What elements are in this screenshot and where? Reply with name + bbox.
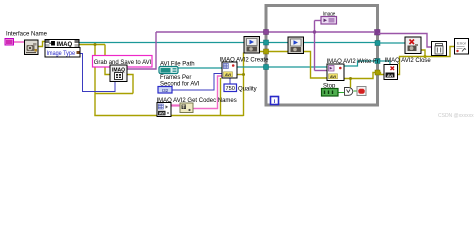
wire: error wire setup to grab inside loop [260,51,289,53]
tunnel: olive error in [264,49,269,54]
terminal: loop iteration i [271,97,279,106]
while loop [266,6,378,106]
wire: error bottom run [94,115,243,117]
vi: IMAQ Close icon [405,37,421,54]
node: olive junction at x95 [94,43,97,46]
node: purple wire junction dot [313,30,316,33]
wire: error wire from IMAQ node going right and down [79,44,105,46]
svg-text:AVI: AVI [225,73,231,77]
vi: IMAQ Grab icon (inside loop) [288,37,304,54]
wire: error riser into AVI2 Create bottom [220,78,222,116]
wire: error out of write frame to right border [344,73,377,79]
vi: IMAQ Create icon [110,65,127,82]
control: AVI File Path terminal [159,67,178,74]
wire: error wire IMAQ Init to IMAQ node [38,42,45,47]
node: Image Type terminal row [45,48,80,58]
wire: purple image riser inside loop [314,21,316,71]
wire: teal session out of loop to IMAQ Close [379,42,406,44]
wire: blue Image Type wire down and into IMAQ Create icon bottom [80,54,115,92]
tunnel: teal session in [264,40,269,45]
node: IMAQ Create expanded node header "IMAQ" [45,40,79,49]
node: olive junction at condition feed [349,77,352,80]
wire: blue FPS wire to AVI2 Create [172,74,222,91]
wire: error out of IMAQ Create icon down [127,75,133,94]
wire: error riser x95 down to bottom run [94,45,96,116]
tunnel: teal session out [375,41,380,46]
wire: or gate to condition terminal [354,90,358,92]
wire: green stop wire [338,92,344,94]
wire: error wire grab out down to write frame [304,52,328,79]
svg-text:AVI: AVI [330,75,336,79]
label: Grab and Save to AVI free label [93,56,153,68]
wire: purple stub to Image indicator [315,20,322,22]
wire: teal AVI refnum out of write frame to right border [344,61,390,66]
wire: teal path wire AVI File Path to AVI2 Create [178,67,222,69]
svg-text:Error: Error [457,41,467,46]
tunnel: teal AVI refnum out [375,59,380,64]
tunnel: purple image in [264,30,269,35]
wire: error drop into Or gate [350,79,352,88]
wire: error riser B up to Grab Setup [243,53,245,117]
vi: IMAQ AVI2 Create icon [222,62,237,78]
control: FPS I32 terminal [158,87,172,94]
tunnel: olive error out [375,70,380,75]
wire: purple stub into Write Frame [315,70,328,72]
wire: error short run y93.5 [95,93,133,95]
function: Or gate [345,88,353,96]
vi: IMAQ Dispose trash icon [432,42,447,56]
svg-text:AVI: AVI [387,74,393,78]
function: Index Array [180,103,193,113]
terminal: Interface Name string control [5,39,14,46]
indicator: Image terminal [321,17,337,25]
svg-text:Interface Name: Interface Name [6,32,48,38]
svg-text:CSDN @xxxxxx: CSDN @xxxxxx [438,113,474,119]
svg-text:AVI: AVI [159,112,165,116]
wire: teal AVI refnum wire AVI2 Create into loop to Write Frame [237,66,327,68]
wire: error out of AVI2 Close up and right [398,47,455,75]
wire: pink codec array wire codec VI to Index Array [171,104,180,106]
node: olive junction right of loop [424,55,427,58]
tunnel: teal AVI refnum in [264,65,269,70]
wire: purple image out of loop to IMAQ Dispose [379,34,432,48]
vi: IMAQ AVI2 Get Codec Names icon [157,103,171,117]
node: olive junction riser B [242,73,245,76]
wire: error out of loop to AVI2 Close [379,73,385,75]
wire: pink string wire from Interface Name terminal to IMAQ Init [14,41,26,43]
wire: purple image wire top run into while loop [156,31,374,33]
wire: teal IMAQ session wire across diagram into loop [79,42,375,44]
vi: IMAQ Init camera icon [25,40,39,55]
svg-text:IMAQ AVI2 Close: IMAQ AVI2 Close [385,58,432,64]
wire: purple image wire from IMAQ Create to loop [127,32,156,69]
vi: IMAQ AVI2 Write Frame icon [327,64,344,81]
vi: IMAQ AVI2 Close icon [384,65,398,80]
svg-text:Quality: Quality [238,87,257,93]
vi: IMAQ Grab Setup icon [244,37,260,54]
wire: error stub AVI2 Create out to riser B [237,74,244,76]
terminal: loop condition (stop if true) [357,87,366,96]
svg-text:Frames Per: Frames Per [160,75,191,81]
svg-text:750: 750 [226,86,235,92]
svg-text:I32: I32 [162,88,169,93]
wire: pink codec string wire Index Array to AVI2 Create [193,76,222,109]
tunnel: purple image out (fat dot) [375,30,381,36]
control: Stop boolean terminal [322,89,339,97]
wire: error branch into IMAQ Create icon [105,45,110,75]
constant: 750 quality [224,84,237,92]
wire: blue quality stub 750 to AVI2 Create bottom [229,78,231,84]
svg-text:Image Type: Image Type [47,51,76,57]
vi: Simple Error Handler icon [455,39,469,55]
wire: error out of IMAQ Close down to error run [421,50,426,57]
